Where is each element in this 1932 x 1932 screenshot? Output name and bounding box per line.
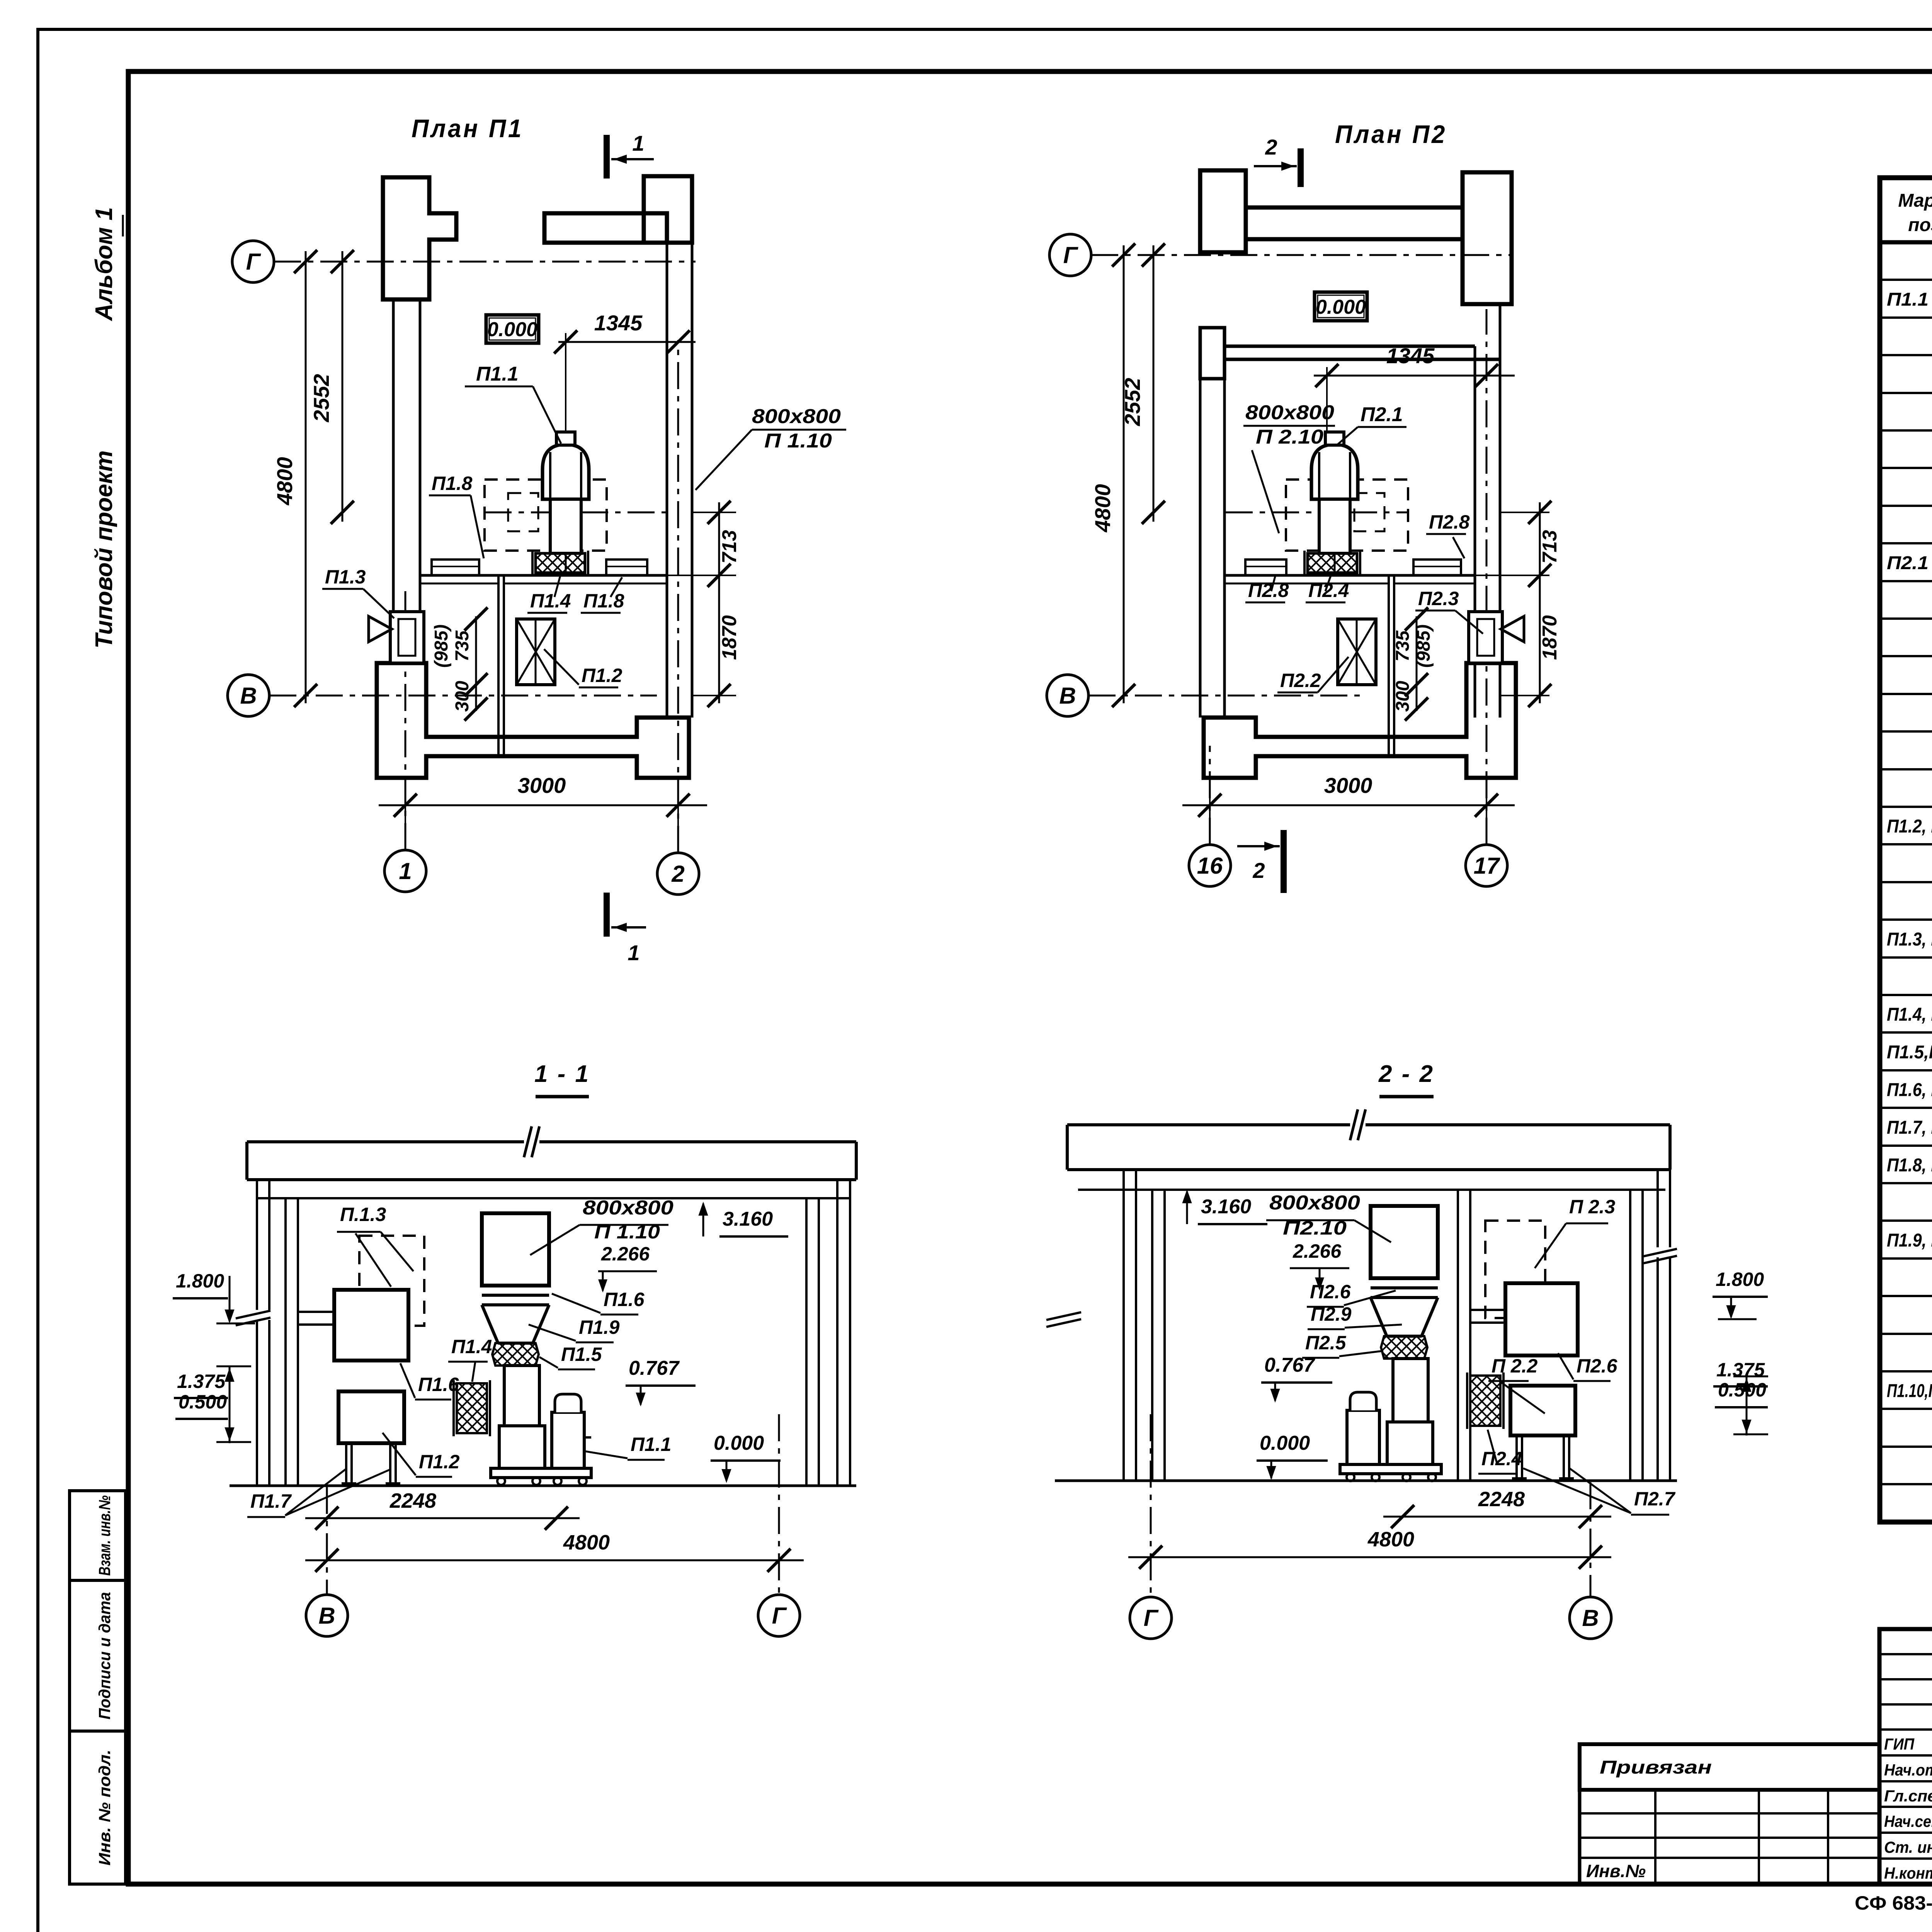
svg-text:2552: 2552 [309, 374, 333, 423]
svg-text:П1.5,П2.5: П1.5,П2.5 [1887, 1042, 1932, 1063]
svg-text:П2.9: П2.9 [1311, 1303, 1352, 1325]
svg-text:П1.2: П1.2 [582, 665, 622, 686]
svg-text:П1.3: П1.3 [325, 566, 366, 588]
svg-text:П1.6, П2.6: П1.6, П2.6 [1887, 1080, 1932, 1100]
svg-text:Г: Г [1144, 1605, 1159, 1631]
svg-text:16: 16 [1197, 853, 1223, 879]
svg-text:713: 713 [1539, 530, 1561, 564]
svg-text:П1.8: П1.8 [432, 473, 473, 494]
svg-text:713: 713 [718, 530, 741, 564]
svg-text:1.800: 1.800 [176, 1270, 224, 1292]
svg-text:2.266: 2.266 [1293, 1240, 1342, 1262]
svg-text:П2.4: П2.4 [1481, 1448, 1522, 1469]
svg-text:поз.: поз. [1908, 215, 1932, 235]
svg-text:0.500: 0.500 [179, 1391, 227, 1413]
svg-text:4800: 4800 [1090, 484, 1115, 533]
svg-text:П1.1: П1.1 [476, 363, 519, 385]
svg-text:1: 1 [632, 131, 644, 155]
svg-text:2: 2 [1265, 135, 1277, 159]
svg-text:В: В [1582, 1605, 1599, 1631]
svg-text:П2.7: П2.7 [1634, 1488, 1676, 1510]
svg-text:В: В [240, 683, 257, 709]
svg-text:Альбом 1: Альбом 1 [91, 207, 117, 321]
svg-text:Гл.спец.: Гл.спец. [1884, 1787, 1932, 1805]
svg-text:3000: 3000 [1324, 773, 1372, 798]
svg-text:План П1: План П1 [412, 114, 524, 143]
svg-text:800х800: 800х800 [1269, 1192, 1360, 1214]
svg-text:3000: 3000 [518, 773, 566, 798]
svg-text:0.767: 0.767 [1264, 1354, 1315, 1376]
svg-text:П2.6: П2.6 [1577, 1355, 1618, 1377]
svg-text:П1.1: П1.1 [631, 1434, 671, 1455]
svg-text:1: 1 [399, 858, 412, 884]
svg-text:735: 735 [1393, 630, 1413, 662]
svg-text:П2.2: П2.2 [1280, 670, 1321, 691]
svg-text:П1.10,П2.10: П1.10,П2.10 [1887, 1381, 1932, 1401]
svg-text:4800: 4800 [563, 1531, 610, 1554]
svg-text:П1.4: П1.4 [451, 1336, 492, 1357]
svg-text:2: 2 [1252, 858, 1265, 883]
svg-text:П1.5: П1.5 [561, 1344, 602, 1365]
svg-text:П2.8: П2.8 [1429, 511, 1470, 533]
svg-text:П1.8, П2.8: П1.8, П2.8 [1887, 1155, 1932, 1176]
svg-text:П 1.10: П 1.10 [764, 430, 832, 452]
svg-text:2248: 2248 [1478, 1488, 1525, 1511]
svg-text:1345: 1345 [1386, 344, 1435, 368]
svg-text:План П2: План П2 [1335, 120, 1447, 148]
svg-text:П1.2, П2.2: П1.2, П2.2 [1887, 816, 1932, 837]
svg-text:П2.3: П2.3 [1418, 588, 1459, 609]
svg-text:1870: 1870 [718, 615, 741, 660]
svg-text:800х800: 800х800 [1245, 401, 1334, 424]
svg-text:П 2.10: П 2.10 [1256, 426, 1323, 448]
svg-text:1 - 1: 1 - 1 [534, 1061, 590, 1087]
svg-text:3.160: 3.160 [723, 1208, 773, 1230]
svg-text:П1.3, П2.3: П1.3, П2.3 [1887, 929, 1932, 950]
svg-text:Г: Г [1063, 242, 1079, 268]
svg-text:П1.4, П2.4: П1.4, П2.4 [1887, 1005, 1932, 1025]
svg-text:(985): (985) [1413, 624, 1434, 668]
svg-text:0.000: 0.000 [714, 1432, 764, 1454]
svg-text:0.500: 0.500 [1718, 1379, 1766, 1401]
svg-text:Ст. инж.: Ст. инж. [1884, 1838, 1932, 1856]
svg-text:4800: 4800 [1367, 1528, 1414, 1551]
svg-text:3.160: 3.160 [1201, 1196, 1251, 1218]
svg-text:2: 2 [671, 861, 684, 887]
svg-text:В: В [318, 1603, 335, 1629]
svg-text:1870: 1870 [1539, 615, 1561, 660]
svg-text:2.266: 2.266 [601, 1243, 650, 1265]
svg-text:Инв.№: Инв.№ [1586, 1861, 1646, 1881]
svg-text:П1.8: П1.8 [583, 590, 624, 612]
svg-text:П2.6: П2.6 [1310, 1281, 1351, 1303]
svg-text:П 1.10: П 1.10 [594, 1221, 660, 1243]
svg-text:4800: 4800 [272, 457, 297, 506]
svg-text:1: 1 [628, 940, 639, 965]
svg-text:П1.7, П2.7: П1.7, П2.7 [1887, 1117, 1932, 1138]
svg-text:17: 17 [1474, 853, 1500, 879]
svg-text:П2.8: П2.8 [1248, 580, 1289, 601]
svg-text:П1.6: П1.6 [604, 1289, 645, 1310]
svg-text:П2.1: П2.1 [1887, 553, 1929, 573]
svg-text:Г: Г [246, 249, 262, 275]
svg-text:Инв. № подл.: Инв. № подл. [95, 1750, 114, 1866]
svg-text:П1.9: П1.9 [579, 1316, 620, 1338]
svg-text:П1.7: П1.7 [250, 1490, 292, 1512]
svg-text:1.375: 1.375 [177, 1371, 226, 1392]
svg-text:В: В [1059, 683, 1076, 709]
svg-text:Марка: Марка [1898, 190, 1932, 211]
svg-text:0.000: 0.000 [1260, 1432, 1310, 1454]
svg-text:800х800: 800х800 [752, 405, 841, 428]
svg-text:П 2.2: П 2.2 [1492, 1355, 1538, 1377]
svg-text:П 2.3: П 2.3 [1569, 1196, 1616, 1218]
svg-text:0.000: 0.000 [487, 318, 537, 341]
svg-text:П1.2: П1.2 [419, 1451, 460, 1473]
svg-text:Привязан: Привязан [1600, 1757, 1712, 1778]
svg-text:П2.5: П2.5 [1305, 1332, 1347, 1354]
svg-text:800х800: 800х800 [583, 1197, 673, 1219]
svg-text:П2.10: П2.10 [1283, 1217, 1347, 1239]
svg-text:П2.1: П2.1 [1361, 403, 1403, 426]
svg-text:Н.контр.: Н.контр. [1884, 1864, 1932, 1882]
svg-text:Нач.отд.: Нач.отд. [1884, 1761, 1932, 1779]
svg-text:2552: 2552 [1120, 378, 1145, 427]
svg-text:Г: Г [772, 1603, 787, 1629]
svg-text:1345: 1345 [594, 311, 643, 335]
svg-text:2 - 2: 2 - 2 [1378, 1061, 1434, 1087]
svg-text:П1.4: П1.4 [530, 590, 571, 612]
svg-text:Взам. инв.№: Взам. инв.№ [95, 1495, 114, 1576]
svg-text:П.1.3: П.1.3 [340, 1204, 386, 1225]
svg-text:0.767: 0.767 [629, 1357, 680, 1379]
svg-text:0.000: 0.000 [1316, 296, 1366, 318]
svg-text:ГИП: ГИП [1884, 1735, 1915, 1753]
svg-text:Нач.сект: Нач.сект [1884, 1812, 1932, 1830]
svg-text:Подписи и дата: Подписи и дата [95, 1592, 114, 1719]
svg-text:П1.6: П1.6 [418, 1374, 459, 1395]
svg-text:СФ 683-01: СФ 683-01 [1855, 1892, 1932, 1914]
svg-text:П1.1: П1.1 [1887, 289, 1929, 310]
svg-text:300: 300 [452, 681, 473, 712]
svg-text:1.800: 1.800 [1716, 1269, 1764, 1290]
svg-text:300: 300 [1393, 681, 1413, 712]
svg-text:2248: 2248 [389, 1489, 436, 1512]
svg-text:1.375: 1.375 [1716, 1359, 1765, 1381]
svg-text:(985): (985) [431, 624, 452, 668]
svg-text:735: 735 [452, 630, 473, 662]
svg-text:П1.9, П2.9: П1.9, П2.9 [1887, 1230, 1932, 1251]
svg-text:Типовой проект: Типовой проект [91, 451, 117, 649]
